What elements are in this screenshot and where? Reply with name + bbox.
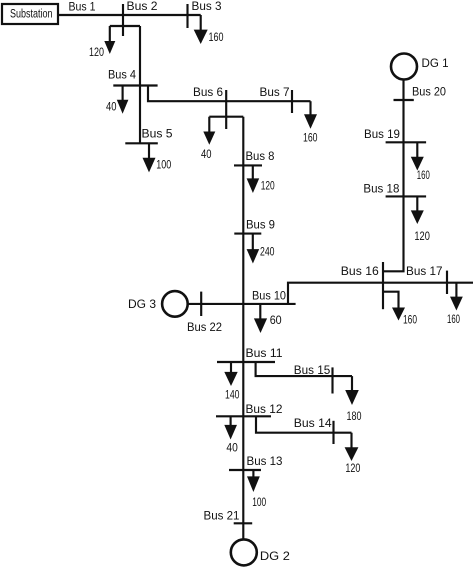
- DG 2 circle: [231, 539, 257, 565]
- svg-text:Bus 10: Bus 10: [252, 289, 286, 303]
- svg-text:Bus 3: Bus 3: [192, 0, 222, 13]
- wire Bus 2 branch: [110, 25, 140, 27]
- svg-text:Bus 5: Bus 5: [142, 127, 173, 141]
- svg-text:180: 180: [347, 409, 362, 423]
- bus 19 bar: [386, 141, 427, 143]
- svg-text:Bus 9: Bus 9: [246, 218, 275, 232]
- svg-text:40: 40: [106, 100, 117, 114]
- wire branch Bus11-Bus15: [256, 362, 352, 376]
- svg-text:Bus 7: Bus 7: [260, 85, 290, 99]
- load arrow Bus 9 (240): [247, 234, 275, 264]
- svg-text:160: 160: [447, 312, 460, 326]
- svg-text:140: 140: [225, 388, 240, 402]
- svg-text:Bus 13: Bus 13: [247, 454, 283, 468]
- load arrow Bus 17 (160): [447, 283, 463, 326]
- svg-text:Bus 21: Bus 21: [204, 509, 240, 523]
- bus 18 bar: [386, 195, 427, 197]
- svg-text:Bus 4: Bus 4: [108, 68, 136, 82]
- svg-text:Bus 18: Bus 18: [363, 182, 399, 196]
- DG 3 circle: [162, 291, 188, 317]
- svg-text:Bus 2: Bus 2: [127, 0, 158, 13]
- svg-text:Bus 15: Bus 15: [294, 363, 331, 377]
- svg-text:DG 1: DG 1: [422, 56, 449, 70]
- svg-text:Bus 16: Bus 16: [341, 264, 379, 278]
- bus 16 bar: [382, 262, 384, 309]
- svg-text:Bus 1: Bus 1: [69, 0, 96, 14]
- wire branch Bus12-Bus14: [256, 416, 352, 432]
- load arrow Bus 15 (180): [345, 376, 361, 423]
- svg-text:120: 120: [345, 461, 360, 475]
- svg-text:160: 160: [209, 30, 224, 44]
- load arrow Bus 11 (140): [224, 362, 239, 402]
- svg-text:DG 3: DG 3: [128, 297, 156, 311]
- svg-text:Bus 17: Bus 17: [406, 264, 443, 278]
- svg-text:160: 160: [403, 313, 417, 327]
- load arrow Bus 16 (160): [383, 292, 417, 327]
- bus 15 bar: [331, 367, 333, 393]
- svg-text:Bus 12: Bus 12: [246, 402, 283, 416]
- substation box: [2, 4, 58, 24]
- bus 17 bar: [446, 271, 448, 294]
- svg-text:160: 160: [417, 168, 430, 182]
- svg-text:40: 40: [226, 441, 238, 455]
- wire central feeder Bus6-DG2: [242, 117, 244, 540]
- wire feeder Bus2-Bus4: [139, 26, 141, 86]
- bus 2 bar: [122, 4, 124, 36]
- svg-text:Bus 19: Bus 19: [364, 127, 400, 141]
- bus 20 bar: [394, 99, 414, 101]
- bus 21 bar: [234, 522, 253, 524]
- load arrow Bus 12 (40): [224, 416, 238, 454]
- wire Bus10-Bus16 link: [288, 283, 473, 304]
- svg-text:Bus 6: Bus 6: [193, 85, 223, 99]
- svg-text:Bus 8: Bus 8: [246, 149, 275, 163]
- load arrow Bus 6 (40): [201, 117, 215, 161]
- load arrow Bus 13 (100): [247, 470, 266, 509]
- svg-text:120: 120: [261, 179, 275, 193]
- load arrow Bus 14 (120): [345, 433, 361, 475]
- wire feeder Bus4-Bus5: [139, 86, 141, 144]
- bus 11 bar: [217, 361, 275, 363]
- bus 3 bar: [186, 4, 188, 28]
- load arrow Bus 7 (160): [303, 101, 318, 144]
- svg-text:120: 120: [414, 229, 430, 243]
- svg-text:Bus 20: Bus 20: [412, 85, 446, 99]
- svg-text:Bus 11: Bus 11: [246, 346, 283, 360]
- bus 14 bar: [332, 421, 334, 444]
- bus 8 bar: [234, 164, 262, 166]
- svg-text:Bus 14: Bus 14: [294, 416, 332, 430]
- wire main feeder Bus1-Bus3: [58, 14, 201, 16]
- svg-text:Bus 22: Bus 22: [187, 320, 222, 334]
- svg-text:DG 2: DG 2: [260, 549, 290, 563]
- svg-text:Substation: Substation: [10, 7, 53, 21]
- bus 7 bar: [291, 90, 293, 113]
- bus 13 bar: [229, 469, 261, 471]
- bus 9 bar: [234, 233, 261, 235]
- load arrow Bus 3 (160): [194, 15, 224, 44]
- svg-text:60: 60: [270, 313, 282, 327]
- svg-text:40: 40: [201, 147, 212, 161]
- wire branch Bus4-Bus6-Bus7: [148, 86, 311, 102]
- bus 22 bar: [200, 292, 202, 316]
- load arrow Bus 8 (120): [247, 165, 275, 193]
- bus 12 bar: [216, 415, 271, 417]
- bus 10 bar (DG3 connection): [188, 303, 296, 305]
- load arrow Bus 5 (100): [143, 143, 172, 172]
- wire feeder DG1-Bus16: [383, 80, 404, 272]
- wire Bus 6 branch: [209, 116, 243, 118]
- load arrow Bus 19 (160): [411, 142, 430, 182]
- svg-text:160: 160: [303, 131, 318, 145]
- DG 1 circle: [391, 54, 417, 80]
- svg-text:100: 100: [252, 495, 266, 509]
- svg-text:240: 240: [260, 245, 275, 259]
- load arrow Bus 18 (120): [411, 196, 430, 243]
- load arrow Bus 4 (40): [106, 86, 128, 114]
- svg-text:100: 100: [156, 158, 171, 172]
- bus 6 bar: [225, 90, 227, 129]
- bus 4 bar: [113, 84, 157, 86]
- load arrow Bus 2 (120): [89, 26, 115, 59]
- bus 5 bar: [125, 142, 158, 144]
- svg-text:120: 120: [89, 45, 104, 59]
- load arrow Bus 10 (60): [254, 304, 282, 333]
